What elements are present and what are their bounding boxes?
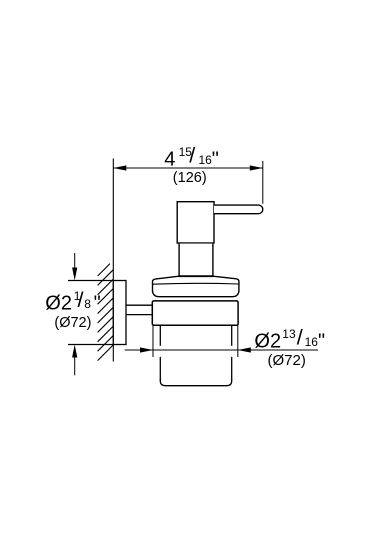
glass right edge upper [231,325,233,346]
svg-text:": " [94,293,101,315]
left dim bottom arrow [74,358,76,376]
glass left edge lower [159,357,161,380]
top dim left arrow [113,165,126,170]
glass dim extension line left [152,325,154,357]
glass dim extension line right [237,325,239,357]
arm [126,304,153,306]
wall face line [112,159,114,362]
glass dim right arrow [238,347,251,352]
svg-text:/: / [297,326,303,350]
svg-text:Ø2: Ø2 [45,293,72,315]
pump head [177,202,214,243]
spout [214,205,263,214]
svg-text:(Ø72): (Ø72) [54,315,91,331]
collar top edge under neck [179,275,213,277]
glass left edge upper [159,325,161,346]
svg-text:4: 4 [164,148,175,170]
svg-text:(Ø72): (Ø72) [268,352,306,369]
pump neck [179,244,213,277]
glass right edge lower [231,357,233,380]
holder ring [152,301,238,325]
wall hatching [98,264,114,361]
svg-text:": " [212,148,219,170]
svg-text:/: / [78,288,84,312]
extension line plate bottom [68,344,113,346]
mounting plate [113,281,126,345]
top dim right extension line [262,161,264,204]
svg-text:": " [318,330,325,352]
collar [153,276,239,297]
svg-text:8: 8 [84,297,91,311]
svg-text:16: 16 [305,335,319,349]
glass bottom [160,379,231,386]
top dim right arrow [250,165,263,170]
top dimension line [113,167,262,169]
svg-text:16: 16 [199,153,213,167]
svg-text:/: / [189,144,195,168]
glass dimension line [125,349,318,351]
left dim top arrow [74,253,76,268]
glass dim left arrow [140,347,153,352]
extension line plate top [68,280,113,282]
svg-text:Ø2: Ø2 [254,330,281,352]
svg-text:13: 13 [282,327,296,341]
svg-text:(126): (126) [173,170,207,186]
collar inner line [153,282,239,285]
